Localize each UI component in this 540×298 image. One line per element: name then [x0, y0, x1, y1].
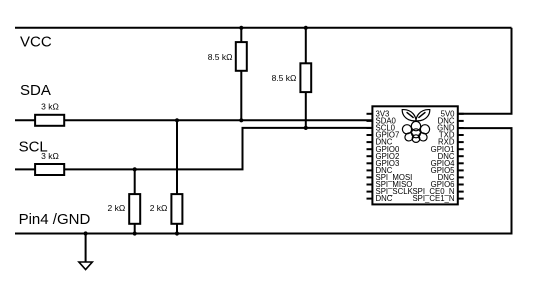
junction dot SCL/R8.5k right: [304, 126, 308, 130]
resistor 2 kOhm (left, SCL to GND): [107, 169, 140, 233]
svg-text:3 kΩ: 3 kΩ: [41, 151, 59, 161]
junction dot VCC/R8.5k left: [239, 26, 243, 30]
svg-text:8.5 kΩ: 8.5 kΩ: [208, 52, 233, 62]
resistor 8.5 kOhm (right, VCC to SCL): [272, 28, 312, 128]
logo berry lobe bottom: [412, 135, 420, 143]
logo right leaf: [416, 110, 430, 121]
Raspberry Pi logo on IC: [402, 121, 429, 142]
svg-text:2 kΩ: 2 kΩ: [150, 203, 168, 213]
logo berry lobe lower-left: [403, 131, 415, 142]
junction dot GND/R2k left: [133, 231, 137, 235]
resistor 2 kOhm (right, SDA to GND): [150, 120, 183, 233]
resistor 3 kOhm (SCL): [35, 164, 64, 175]
svg-text:8.5 kΩ: 8.5 kΩ: [272, 73, 297, 83]
wire SCL rail: [15, 128, 372, 169]
svg-text:Pin4 /GND: Pin4 /GND: [19, 211, 91, 228]
resistor 3 kOhm (SDA): [35, 115, 64, 126]
svg-text:SDA: SDA: [20, 82, 51, 99]
wire VCC rail: [15, 27, 512, 29]
junction dot SDA/R2k right: [175, 118, 179, 122]
IC pin stubs right: [458, 114, 464, 199]
svg-text:SPI_CE1_N: SPI_CE1_N: [412, 194, 454, 203]
IC U1 Raspberry Pi GPIO body: [372, 106, 457, 204]
wire VCC to 5V0 pin: [458, 28, 512, 114]
junction dot SCL/R2k left: [133, 167, 137, 171]
svg-text:VCC: VCC: [20, 34, 52, 51]
logo berry lobe center: [412, 129, 421, 138]
IC pin stubs left: [367, 114, 373, 199]
logo right leaf vein: [418, 112, 425, 118]
svg-text:2 kΩ: 2 kΩ: [107, 203, 125, 213]
junction dot VCC/R8.5k right: [304, 26, 308, 30]
IC pin labels right: [412, 109, 455, 203]
resistor 8.5 kOhm (left, VCC to SDA): [208, 28, 247, 121]
logo left leaf vein: [407, 112, 414, 118]
logo left leaf: [402, 110, 416, 121]
junction dot SDA/R8.5k left: [239, 118, 243, 122]
svg-text:DNC: DNC: [376, 194, 393, 203]
ground symbol: [79, 234, 92, 270]
junction dot GND/ground symbol: [84, 231, 88, 235]
wire GND rail from GND pin: [15, 128, 512, 233]
IC pin labels left: [376, 109, 414, 203]
logo berry lobe upper-right: [420, 125, 429, 134]
logo berry lobe lower-right: [417, 131, 429, 142]
logo berry lobe upper-left: [402, 125, 411, 134]
logo berry lobe top-center: [411, 121, 420, 130]
wire SDA rail: [15, 119, 372, 121]
svg-text:3 kΩ: 3 kΩ: [41, 102, 59, 112]
junction dot GND/R2k right: [175, 231, 179, 235]
